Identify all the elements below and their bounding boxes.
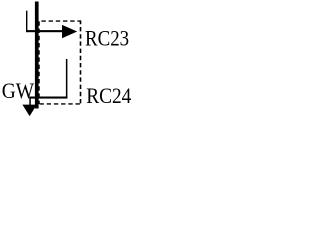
- svg-text:RC24: RC24: [86, 83, 131, 108]
- svg-text:GW: GW: [2, 78, 35, 103]
- svg-text:RC23: RC23: [85, 26, 129, 51]
